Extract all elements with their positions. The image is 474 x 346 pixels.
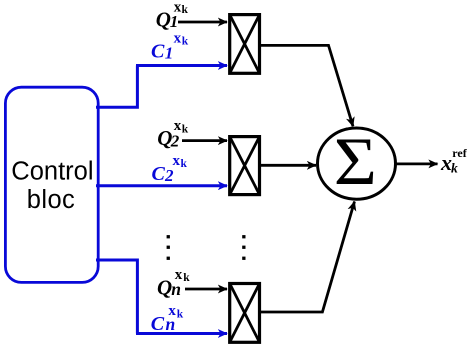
arrow C2 input: [96, 184, 227, 187]
arrow Qn input: [185, 288, 227, 291]
dots column right: [242, 235, 245, 260]
svg-text:1: 1: [165, 44, 174, 63]
multiplier Mn: [230, 284, 260, 343]
wire control-to-Cn: [96, 260, 137, 334]
svg-text:Control: Control: [11, 158, 93, 186]
svg-text:k: k: [183, 272, 190, 284]
svg-text:k: k: [177, 308, 184, 320]
wire control-to-C1: [96, 66, 137, 108]
label Q1: [156, 0, 189, 32]
wire M2-to-sum: [260, 164, 317, 167]
multiplier M1: [230, 15, 260, 74]
svg-text:Σ: Σ: [334, 125, 377, 200]
dots column left: [167, 235, 170, 260]
svg-text:k: k: [182, 4, 189, 16]
svg-text:x: x: [175, 267, 183, 283]
svg-text:x: x: [173, 153, 181, 169]
svg-text:bloc: bloc: [27, 186, 75, 214]
label Cn: [151, 303, 184, 335]
arrow Q1 input: [178, 21, 227, 24]
label Q2: [157, 118, 189, 150]
svg-text:x: x: [174, 118, 182, 134]
svg-text:C: C: [151, 41, 165, 63]
arrow C1 input: [136, 64, 227, 67]
wire Mn-to-sum: [260, 202, 355, 313]
arrow Q2 input: [182, 139, 227, 142]
svg-text:k: k: [181, 158, 188, 170]
arrow Cn input: [136, 332, 227, 335]
svg-text:C: C: [152, 163, 166, 185]
svg-text:Q: Q: [157, 276, 172, 300]
label x_k^ref output: [440, 146, 468, 175]
svg-text:k: k: [182, 123, 189, 135]
multiplier M2: [230, 137, 260, 195]
summation node S1: [318, 125, 396, 200]
label C2: [152, 153, 188, 185]
svg-text:C: C: [151, 313, 165, 335]
wire M1-to-sum: [260, 45, 354, 126]
svg-text:ref: ref: [452, 146, 467, 160]
label C1: [151, 30, 189, 62]
svg-text:k: k: [451, 160, 458, 175]
svg-text:x: x: [174, 30, 182, 46]
output arrow: [396, 162, 438, 165]
label Qn: [157, 267, 190, 300]
svg-text:Q: Q: [156, 8, 171, 32]
control block U1: [5, 87, 98, 282]
svg-text:k: k: [182, 36, 189, 48]
svg-text:x: x: [168, 303, 176, 319]
